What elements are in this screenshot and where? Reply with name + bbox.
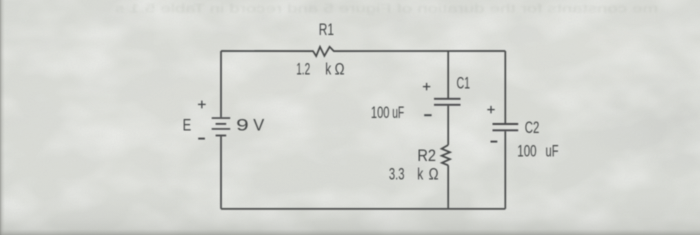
svg-text:3.3: 3.3 bbox=[389, 164, 405, 183]
svg-text:E: E bbox=[183, 115, 192, 134]
svg-text:1.2: 1.2 bbox=[296, 60, 310, 79]
svg-text:uF: uF bbox=[392, 103, 404, 122]
svg-text:C1: C1 bbox=[457, 73, 471, 92]
svg-text:100: 100 bbox=[371, 103, 390, 122]
svg-text:R2: R2 bbox=[417, 146, 436, 165]
svg-text:R1: R1 bbox=[319, 20, 334, 39]
svg-text:9: 9 bbox=[236, 116, 249, 135]
svg-text:k: k bbox=[417, 164, 423, 183]
svg-text:C2: C2 bbox=[525, 118, 540, 137]
svg-text:Ω: Ω bbox=[429, 164, 439, 183]
svg-text:V: V bbox=[253, 116, 265, 135]
svg-text:k: k bbox=[325, 60, 331, 79]
svg-text:uF: uF bbox=[546, 141, 559, 160]
svg-text:Ω: Ω bbox=[335, 60, 345, 79]
svg-text:100: 100 bbox=[517, 141, 536, 160]
svg-text:me constants for the duration: me constants for the duration of Figure … bbox=[115, 4, 658, 16]
